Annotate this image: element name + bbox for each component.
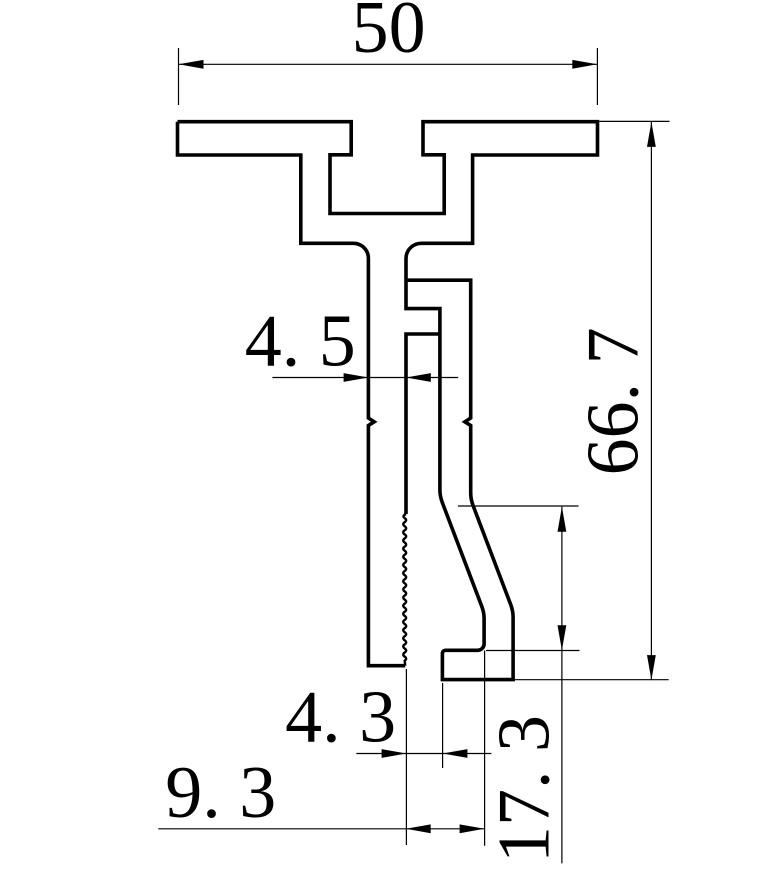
dimension 50: left extension line: [178, 48, 180, 105]
svg-text:50: 50: [352, 0, 426, 69]
svg-text:4. 3: 4. 3: [285, 677, 396, 759]
serrated (knurled) lower right edge of stem: [403, 514, 406, 666]
dimension 66.7: dimension line: [650, 122, 652, 680]
dimension 50: left arrowhead: [179, 60, 204, 69]
dimension 9.3: right extension line (foot step): [484, 651, 486, 846]
dimension 17.3: top arrowhead: [558, 507, 567, 532]
profile outline: left flange bottom, web left wall, stem with break mark: [178, 122, 406, 666]
dimension 17.3: bottom extension line: [486, 650, 580, 652]
dimension 17.3: dimension line: [561, 507, 563, 864]
dimension 66.7: top extension line: [599, 120, 669, 122]
dimension 4.3: dimension line: [356, 753, 491, 755]
dimension 66.7: bottom extension line: [514, 679, 669, 681]
dimension 17.3: bottom arrowhead: [558, 625, 567, 650]
svg-text:4. 5: 4. 5: [245, 300, 356, 382]
dimension 66.7: top arrowhead: [647, 122, 656, 147]
dimension 66.7: bottom arrowhead: [647, 655, 656, 680]
dimension 50: right extension line: [596, 48, 598, 105]
dimension 4.5: right arrowhead pointing left: [406, 373, 431, 382]
dimension 4.3: left extension line (from stem): [405, 669, 407, 845]
svg-text:66. 7: 66. 7: [573, 327, 655, 475]
svg-text:9. 3: 9. 3: [165, 752, 276, 834]
dimension 4.3: arrowhead pointing right at stem line: [382, 749, 407, 758]
dimension 4.3: right extension line (from foot): [442, 683, 444, 768]
dimension 50: dimension line: [179, 63, 598, 65]
dimension 9.3: right arrowhead: [460, 824, 485, 833]
svg-text:17. 3: 17. 3: [484, 715, 566, 863]
profile outline: flanges, T-slot channel, web, right branch and foot: [178, 122, 598, 680]
dimension 4.5: dimension line: [272, 377, 458, 379]
dimension 9.3: dimension line: [158, 828, 484, 830]
stem right wall lower straight part and slot top edge: [406, 334, 440, 514]
dimension 9.3: left arrowhead: [406, 824, 431, 833]
dimension 4.3: arrowhead pointing left at foot line: [443, 749, 468, 758]
dimension 50: right arrowhead: [572, 60, 597, 69]
dimension 17.3: top extension line: [458, 505, 579, 507]
dimension 4.5: left arrowhead pointing right: [344, 373, 369, 382]
